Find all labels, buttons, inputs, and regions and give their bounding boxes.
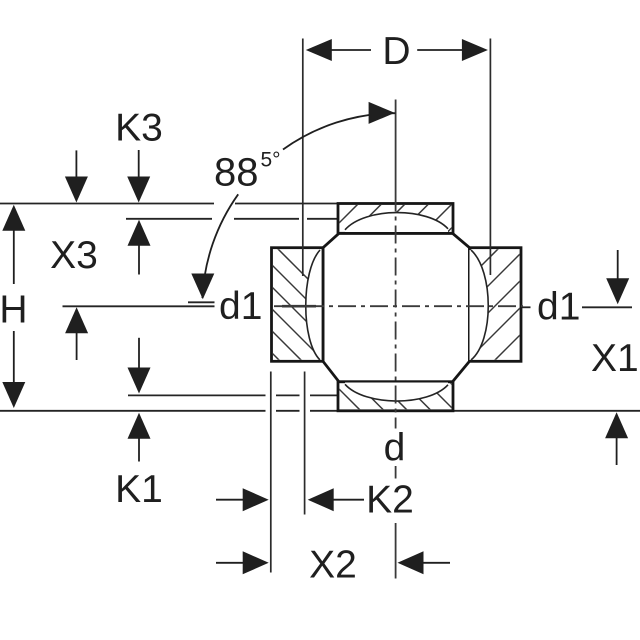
dimension H [0,205,28,408]
d1 dimension line right [521,306,632,308]
angular dimension 88.5 degrees [191,102,395,299]
svg-text:K2: K2 [366,479,414,522]
left socket [265,236,325,406]
svg-text:d1: d1 [537,286,580,329]
svg-text:d1: d1 [219,285,262,328]
top socket [303,200,480,236]
dimension X3 [50,150,98,360]
top reference line (top face of upper socket, extended left) [0,203,338,205]
K2 extension line (socket mouth) [304,372,306,515]
svg-text:K1: K1 [115,468,163,511]
bottom socket [335,268,480,414]
right socket [466,223,524,416]
svg-text:K3: K3 [115,107,163,150]
K1 upper reference line [128,394,338,396]
svg-text:H: H [0,289,28,332]
body of cross fitting [323,233,470,381]
d1 dimension line left [63,302,215,306]
dimension K3 [115,107,163,275]
bottom reference line (bottom face of lower socket, full width) [0,410,640,412]
heavy dash of horizontal axis inside left socket [282,305,316,308]
svg-text:d: d [384,427,406,470]
K3 lower reference line [126,218,338,220]
svg-text:D: D [382,30,410,73]
dimension D [306,30,488,73]
vertical centerline of vertical run [395,100,397,579]
svg-text:X3: X3 [50,234,98,277]
dimension K1 [115,338,163,511]
svg-text:X1: X1 [591,337,639,380]
horizontal centerline of horizontal run [274,305,523,307]
K2/X2 extension line (outer edge of left socket) [270,372,272,573]
D dimension extension line right [489,39,491,276]
svg-text:X2: X2 [309,544,357,587]
dimension X2 [216,544,450,587]
dimension K2 [216,479,414,522]
dimension X1 [591,250,639,465]
D dimension extension line left [302,39,304,277]
